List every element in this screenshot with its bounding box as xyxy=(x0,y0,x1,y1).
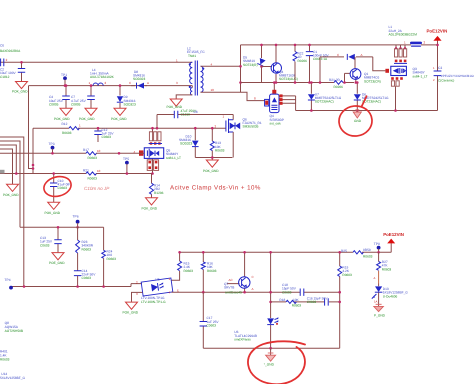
test point TP8 xyxy=(374,242,381,253)
resistor R25 series xyxy=(341,248,373,259)
svg-text:AIUL1718A102K: AIUL1718A102K xyxy=(90,75,115,79)
diode D8 xyxy=(129,70,149,89)
svg-text:R0603: R0603 xyxy=(107,257,117,261)
ground under C10 xyxy=(45,202,61,215)
svg-text:TN#1: TN#1 xyxy=(188,54,196,58)
svg-text:R0603: R0603 xyxy=(184,269,194,273)
svg-text:C6: C6 xyxy=(0,44,4,48)
ground GND pink under D6 xyxy=(353,110,362,123)
resistor R23 xyxy=(76,227,94,270)
mosfet Q4 SI7850DP package xyxy=(265,81,296,125)
resistor R22 xyxy=(293,44,307,84)
LED D13 xyxy=(372,276,409,306)
wire right vertical x437.5 xyxy=(437,41,439,111)
capacitor C10 circled xyxy=(50,172,72,202)
transistor Q4 bjt xyxy=(262,44,298,84)
svg-text:10: 10 xyxy=(97,149,101,153)
test point TP6 xyxy=(73,215,80,229)
svg-text:C0603: C0603 xyxy=(82,276,92,280)
ground pink bottom xyxy=(264,348,276,366)
svg-text:C0603: C0603 xyxy=(282,290,292,294)
svg-text:GND: GND xyxy=(354,119,362,123)
diode U7 xyxy=(308,81,342,112)
transformer L2 xyxy=(176,47,214,99)
svg-text:PoE12VIN: PoE12VIN xyxy=(383,232,404,237)
svg-text:SOD323: SOD323 xyxy=(124,102,136,106)
svg-text:10: 10 xyxy=(211,88,215,92)
svg-text:0R50: 0R50 xyxy=(363,248,371,252)
svg-text:POK_GND: POK_GND xyxy=(123,311,139,315)
svg-text:ADL2PE003BG22M: ADL2PE003BG22M xyxy=(389,33,418,37)
svg-text:sm0Dsac45: sm0Dsac45 xyxy=(225,291,242,295)
svg-text:R0603: R0603 xyxy=(342,273,352,277)
svg-text:C0805: C0805 xyxy=(49,102,59,106)
svg-text:A: A xyxy=(147,81,149,85)
ground under transformer xyxy=(167,99,183,109)
svg-text:C(Ceramic): C(Ceramic) xyxy=(438,79,454,83)
svg-text:BAXR262R0A: BAXR262R0A xyxy=(0,49,21,53)
svg-text:10K: 10K xyxy=(293,298,300,302)
test point TP4 xyxy=(5,278,13,289)
ground pink P_GND xyxy=(374,304,386,317)
left edge label R401 xyxy=(0,350,10,362)
capacitor C13 xyxy=(40,226,62,252)
resistor R15 xyxy=(178,251,194,273)
resistor R13 xyxy=(210,127,224,158)
svg-text:R21 2R: R21 2R xyxy=(329,78,341,82)
mosfet Q3 SI4840Y xyxy=(385,45,427,112)
svg-text:R12: R12 xyxy=(62,122,68,126)
wire rail E xyxy=(180,251,392,253)
wire mid rail xyxy=(241,82,355,84)
svg-text:TP8: TP8 xyxy=(374,242,380,246)
ground POK_GND left xyxy=(12,82,28,94)
left edge label U14 xyxy=(0,372,26,380)
svg-text:R0603: R0603 xyxy=(382,267,392,271)
wire left vertical from bus xyxy=(29,86,34,169)
ground under opto xyxy=(123,302,139,315)
svg-text:POK_GND: POK_GND xyxy=(142,206,158,210)
svg-text:PoE12VIN: PoE12VIN xyxy=(427,29,448,34)
capacitor C12 xyxy=(94,127,114,142)
svg-text:LTV-100N-TP1-G: LTV-100N-TP1-G xyxy=(141,300,166,304)
svg-text:10: 10 xyxy=(97,169,101,173)
svg-text:2PFUZCYX32HACB1G63: 2PFUZCYX32HACB1G63 xyxy=(441,74,474,78)
inductor L4 xyxy=(89,68,115,86)
capacitor C4 xyxy=(49,84,70,108)
capacitor C1 xyxy=(306,44,330,84)
svg-text:SOD323: SOD323 xyxy=(133,77,145,81)
svg-text:C0603: C0603 xyxy=(58,186,68,190)
red annotation circle right xyxy=(338,96,374,138)
diode D10 xyxy=(179,127,199,158)
svg-text:R0603: R0603 xyxy=(363,254,373,258)
red annotation ellipse C10 xyxy=(42,174,73,199)
wire rail F xyxy=(203,347,339,349)
svg-text:U5: U5 xyxy=(156,277,160,281)
mosfet Q6 xyxy=(226,115,262,158)
svg-text:R1206: R1206 xyxy=(154,191,164,195)
svg-text:E: E xyxy=(177,288,179,292)
svg-text:POK_GND: POK_GND xyxy=(54,117,70,121)
svg-text:C1812: C1812 xyxy=(0,75,10,79)
svg-text:SOT23(HAC): SOT23(HAC) xyxy=(315,100,334,104)
wire x270.6 vertical xyxy=(270,252,272,318)
ground under D9 xyxy=(111,108,127,121)
svg-text:P_GND: P_GND xyxy=(374,314,386,318)
wire LED to rail F xyxy=(270,325,272,348)
wire clamp bottom xyxy=(195,158,232,160)
svg-text:so84-1_LT: so84-1_LT xyxy=(413,74,428,78)
capacitor C2 xyxy=(0,44,21,80)
wire main bus xyxy=(29,85,190,87)
wire rail B xyxy=(0,152,141,154)
svg-text:SOT23(R): SOT23(R) xyxy=(243,63,258,67)
resistor R21 series mid rail xyxy=(329,78,343,89)
transistor Q7 xyxy=(224,251,255,295)
svg-text:A: A xyxy=(252,287,254,291)
test point TP3 xyxy=(49,142,55,154)
svg-text:POE_GND: POE_GND xyxy=(49,261,65,265)
diode D5 xyxy=(243,44,266,83)
power flag PoE12VIN bottom xyxy=(383,232,404,252)
ground under C7 xyxy=(79,108,97,121)
svg-text:TP3: TP3 xyxy=(49,142,55,146)
svg-text:5XL8V1258BF_G: 5XL8V1258BF_G xyxy=(0,376,26,380)
capacitor C14 xyxy=(74,269,96,287)
svg-text:C10m no JP: C10m no JP xyxy=(84,186,110,191)
wire to Q3 gate xyxy=(373,57,386,71)
power flag PoE12VIN top xyxy=(427,29,448,47)
svg-text:SRV7B: SRV7B xyxy=(224,286,234,290)
svg-text:C0603: C0603 xyxy=(102,135,112,139)
svg-text:C0603: C0603 xyxy=(40,243,50,247)
harness wires left xyxy=(0,128,34,286)
wire block top xyxy=(20,226,104,228)
svg-text:R0603: R0603 xyxy=(292,303,302,307)
svg-text:POK_GND: POK_GND xyxy=(3,193,19,197)
resistor R16 xyxy=(201,251,216,294)
svg-text:POK_GND: POK_GND xyxy=(12,90,28,94)
mosfet Q5 package xyxy=(134,127,182,174)
ground clamp xyxy=(203,160,219,173)
svg-text:C0603: C0603 xyxy=(307,300,317,304)
svg-text:TP1: TP1 xyxy=(61,73,67,77)
svg-text:*_GND: *_GND xyxy=(264,363,275,367)
capacitor C17 xyxy=(200,292,220,348)
svg-text:C8: C8 xyxy=(194,110,198,114)
wire clamp cap line xyxy=(157,115,230,129)
svg-text:SOD323: SOD323 xyxy=(180,142,192,146)
svg-text:A: A xyxy=(374,276,376,280)
svg-text:C0603 1A: C0603 1A xyxy=(313,57,328,61)
wire opto emitter xyxy=(172,291,340,293)
wire rail D xyxy=(11,284,142,287)
svg-text:SM3U5035: SM3U5035 xyxy=(243,125,259,129)
ground harness left xyxy=(3,184,19,197)
resistor R17 xyxy=(83,148,101,160)
svg-text:sot_oak: sot_oak xyxy=(270,122,282,126)
resistor R14 vertical xyxy=(150,174,164,198)
svg-text:C0603: C0603 xyxy=(207,324,217,328)
resistor R19 xyxy=(338,251,352,348)
resistor R20 xyxy=(83,168,101,180)
svg-text:R25: R25 xyxy=(341,249,347,253)
diode D6 xyxy=(354,81,389,112)
capacitor C16 xyxy=(307,296,328,305)
svg-text:R21: R21 xyxy=(83,168,89,172)
ground under C4 xyxy=(54,108,72,121)
capacitor C3 xyxy=(433,66,474,83)
wire vertical x240.5 xyxy=(240,45,242,92)
svg-text:R0603: R0603 xyxy=(62,131,72,135)
ground under C13 xyxy=(49,253,65,266)
capacitor C18 xyxy=(282,283,304,296)
svg-text:A: A xyxy=(361,53,363,57)
svg-text:POK_GND: POK_GND xyxy=(203,169,219,173)
wire clamp branch x320 xyxy=(320,57,344,83)
wire rail C xyxy=(0,173,153,175)
wire rail A xyxy=(33,127,226,129)
wire opto collector xyxy=(172,271,180,280)
svg-text:Acitve Clamp Vds-Vin + 10%: Acitve Clamp Vds-Vin + 10% xyxy=(170,185,261,192)
optocoupler U5 xyxy=(136,277,173,304)
diode D4 xyxy=(337,53,373,60)
svg-text:R0603: R0603 xyxy=(215,149,225,153)
resistor R18 xyxy=(279,298,301,307)
wire top rail xyxy=(241,44,438,46)
svg-text:R17: R17 xyxy=(83,148,89,152)
resistor R27 xyxy=(377,252,392,283)
transistor Q1 xyxy=(343,57,381,84)
svg-text:R18: R18 xyxy=(279,298,285,302)
svg-text:so84-1_LT: so84-1_LT xyxy=(166,156,181,160)
capacitor C5 xyxy=(18,61,25,81)
resistor R24 xyxy=(102,227,116,286)
svg-text:smdXParas: smdXParas xyxy=(234,338,251,342)
svg-text:POK_GND: POK_GND xyxy=(111,117,127,121)
test point TP1 xyxy=(61,73,67,87)
inductor L1 xyxy=(389,25,426,46)
wire bottom rail xyxy=(296,110,438,112)
test point TP5 xyxy=(123,157,129,175)
wire secondary bottom to Q4 xyxy=(201,92,265,100)
svg-text:R0206: R0206 xyxy=(298,59,308,63)
wire top primary line xyxy=(0,61,189,63)
left edge label Q8 xyxy=(5,321,23,333)
svg-text:R0603: R0603 xyxy=(207,269,217,273)
resistor R12 xyxy=(62,122,82,135)
svg-text:TP5: TP5 xyxy=(123,157,129,161)
svg-text:R0603: R0603 xyxy=(82,247,92,251)
svg-text:R0603: R0603 xyxy=(88,176,98,180)
capacitor C7 xyxy=(71,84,95,108)
wire secondary top xyxy=(201,65,241,67)
svg-text:C0805: C0805 xyxy=(71,102,81,106)
wire opto cathode to ground xyxy=(132,292,143,302)
svg-text:TP4: TP4 xyxy=(5,278,11,282)
svg-text:SOT23(CR): SOT23(CR) xyxy=(364,79,381,83)
red annotation circle bottom xyxy=(248,341,305,384)
svg-text:R0603: R0603 xyxy=(0,357,10,361)
ground under R14 xyxy=(142,198,158,211)
svg-text:C1210: C1210 xyxy=(181,113,191,117)
svg-text:TP6: TP6 xyxy=(73,215,79,219)
svg-text:POK_GND: POK_GND xyxy=(45,211,61,215)
svg-text:1A: 1A xyxy=(374,300,378,304)
LED U6 xyxy=(234,317,278,341)
svg-text:POK_GND: POK_GND xyxy=(79,117,95,121)
svg-text:C3: C3 xyxy=(438,66,442,70)
wire R18 C16 line xyxy=(271,301,340,303)
svg-text:R0603: R0603 xyxy=(88,156,98,160)
capacitor C8 xyxy=(174,109,224,129)
svg-text:R0206: R0206 xyxy=(334,85,344,89)
diode D9 xyxy=(117,84,136,108)
svg-text:AOT2SH50B: AOT2SH50B xyxy=(5,329,23,333)
svg-text:U-Du4606: U-Du4606 xyxy=(383,294,398,298)
